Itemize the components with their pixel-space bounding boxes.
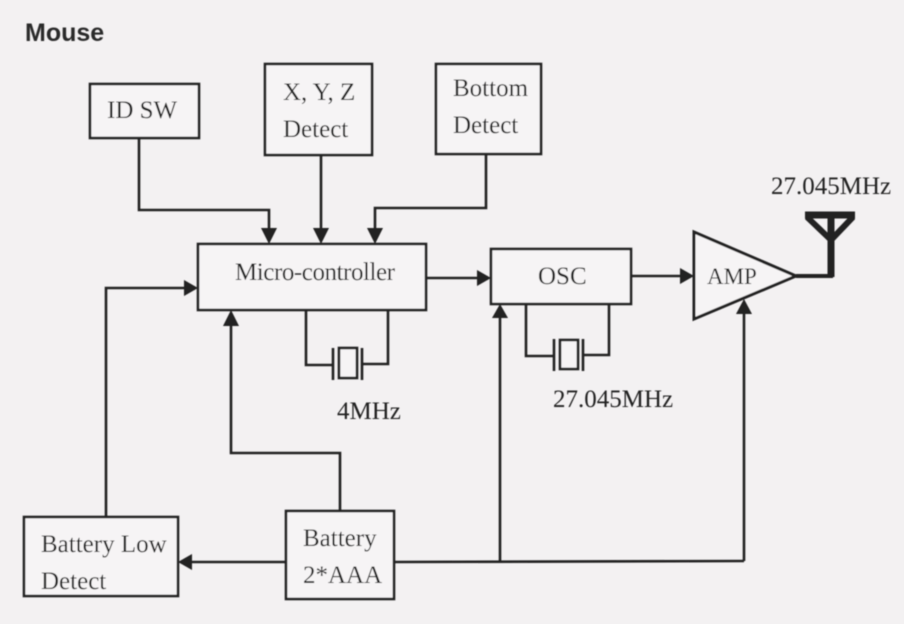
wire ID SW to Micro-controller <box>139 138 269 231</box>
arrowhead into Micro-controller top (from X,Y,Z Detect) <box>313 228 329 244</box>
crystal X2 27.045MHz left lead <box>526 304 554 356</box>
wire Battery to Battery Low Detect <box>190 561 286 564</box>
crystal X1 right lead <box>362 310 388 364</box>
arrowhead into OSC left edge <box>477 270 491 286</box>
wire OSC to AMP <box>631 275 682 278</box>
crystal X2 left plate <box>553 339 556 371</box>
wire power rail up to OSC <box>499 317 502 562</box>
crystal X2 body <box>560 340 578 369</box>
arrowhead into Micro-controller left edge <box>184 280 198 296</box>
block ID SW <box>90 84 199 138</box>
svg-text:Detect: Detect <box>283 116 348 143</box>
crystal X1 right plate <box>361 348 364 380</box>
arrowhead into Micro-controller bottom <box>223 310 239 326</box>
svg-text:27.045MHz: 27.045MHz <box>771 173 891 200</box>
crystal X2 right lead <box>583 304 609 355</box>
arrowhead into OSC bottom <box>492 304 508 318</box>
svg-text:Bottom: Bottom <box>453 75 529 102</box>
wire Battery to Micro-controller (power) <box>231 323 340 511</box>
svg-text:27.045MHz: 27.045MHz <box>553 386 673 413</box>
wire Battery bottom rail to right <box>394 561 744 562</box>
wire X,Y,Z Detect to Micro-controller <box>320 155 323 231</box>
arrowhead into AMP bottom edge <box>736 299 752 314</box>
crystal X1 4MHz left lead <box>306 310 333 365</box>
wire AMP output to antenna <box>796 274 833 278</box>
svg-text:Mouse: Mouse <box>25 19 104 47</box>
wire Battery Low Detect to Micro-controller <box>106 288 186 517</box>
svg-text:X, Y, Z: X, Y, Z <box>283 79 355 106</box>
block Battery Low Detect <box>24 517 178 596</box>
crystal X1 left plate <box>332 348 335 380</box>
arrowhead into Micro-controller top (from ID SW) <box>261 228 277 244</box>
block OSC <box>491 249 631 304</box>
svg-text:4MHz: 4MHz <box>337 398 401 425</box>
svg-text:2*AAA: 2*AAA <box>303 562 382 589</box>
antenna <box>805 214 855 277</box>
amplifier AMP <box>694 232 796 319</box>
wire power rail up to AMP <box>743 313 746 561</box>
block Bottom Detect <box>436 64 541 154</box>
svg-text:ID SW: ID SW <box>107 97 178 124</box>
svg-text:Micro-controller: Micro-controller <box>235 259 396 286</box>
arrowhead into Micro-controller top (from Bottom Detect) <box>367 228 383 244</box>
crystal X2 right plate <box>582 339 585 371</box>
wire Bottom Detect to Micro-controller <box>375 154 486 231</box>
svg-text:Detect: Detect <box>41 568 106 595</box>
block Micro-controller <box>198 244 426 310</box>
block Battery 2*AAA <box>286 511 394 599</box>
svg-text:Battery: Battery <box>303 525 377 552</box>
svg-text:Battery Low: Battery Low <box>41 531 167 558</box>
arrowhead into Battery Low Detect right edge <box>178 554 192 570</box>
svg-text:Detect: Detect <box>453 112 518 139</box>
crystal X1 body <box>339 348 357 378</box>
block X,Y,Z Detect <box>265 64 372 155</box>
arrowhead into AMP left edge <box>680 268 694 284</box>
wire Micro-controller to OSC <box>426 277 479 280</box>
svg-text:OSC: OSC <box>538 263 587 290</box>
svg-text:AMP: AMP <box>707 264 757 289</box>
